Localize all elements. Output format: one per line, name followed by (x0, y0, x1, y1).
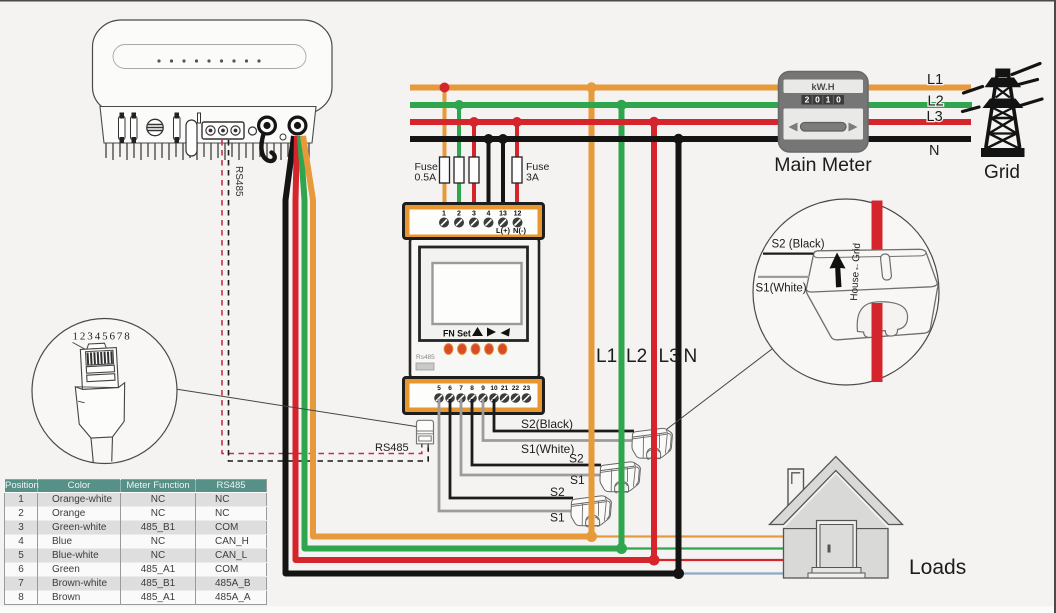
CT secondary wire S1 gray (terminal 9 to CT3) (483, 399, 637, 441)
svg-text:L3: L3 (659, 346, 680, 367)
CT zoom S2 line (763, 253, 814, 255)
CT zoom clamp slot (880, 254, 892, 281)
svg-text:Rs485: Rs485 (416, 354, 435, 361)
CT zoom arrow (830, 253, 846, 288)
CT secondary wire S1 gray (terminal 5 to CT1) (439, 399, 578, 511)
svg-text:12: 12 (514, 211, 522, 218)
svg-text:L2: L2 (928, 94, 944, 110)
wire feeder L1 lower segment through CT1 (589, 420, 595, 537)
inverter front pill with LEDs (113, 45, 306, 69)
svg-text:L1: L1 (927, 72, 943, 88)
CT clamp CT3 (top, on L3) (632, 428, 672, 459)
junction dot on L2 bus at drop 2 (454, 100, 464, 110)
main meter body (779, 72, 869, 153)
svg-text:3A: 3A (526, 172, 539, 184)
svg-text:13: 13 (499, 211, 507, 218)
svg-text:S2: S2 (569, 452, 584, 466)
svg-text:2: 2 (805, 95, 810, 105)
svg-text:0.5A: 0.5A (415, 172, 437, 184)
svg-text:RS485: RS485 (233, 166, 244, 197)
CT clamp CT1 (bottom, on L1) (571, 496, 611, 527)
svg-text:8: 8 (470, 385, 474, 392)
thin wire N to house (679, 572, 784, 574)
wire drop to meter terminal 12 N(-) via fuse (515, 122, 519, 213)
svg-text:S1: S1 (550, 511, 565, 525)
svg-text:N(-): N(-) (513, 226, 526, 235)
RJ45 latch tab (87, 343, 107, 349)
junction dot on L3 bus at fuse F4 drop (512, 117, 522, 127)
svg-text:7: 7 (459, 385, 463, 392)
RJ45 pins (88, 351, 112, 364)
svg-text:21: 21 (501, 385, 509, 392)
energy meter LED dots (444, 344, 507, 355)
svg-text:4: 4 (487, 211, 491, 218)
inverter vent pill (186, 120, 197, 156)
svg-text:1: 1 (826, 95, 831, 105)
svg-text:N: N (684, 346, 698, 367)
svg-text:FN Set: FN Set (443, 329, 471, 339)
fuse F1 0.5A (440, 157, 450, 183)
CT zoom circle (753, 199, 939, 385)
RJ45 zoom circle (32, 319, 177, 464)
inverter small circle port (280, 134, 286, 140)
wire feeder N lower segment (676, 420, 682, 574)
CT secondary wire S2 black (terminal 6 to CT1) (450, 399, 573, 498)
junction dot on N bus at drop 13 (498, 134, 508, 144)
svg-text:RS485: RS485 (375, 442, 409, 454)
wire L2 from inverter (green) (300, 136, 622, 549)
RJ45 boot (75, 383, 127, 439)
svg-text:5: 5 (437, 385, 441, 392)
house (Loads) (0, 0, 1, 1)
inverter small port (249, 127, 257, 135)
CT secondary wire S1 gray (terminal 7 to CT2) (461, 399, 606, 475)
RJ45 latch leader (72, 342, 85, 351)
svg-text:23: 23 (523, 385, 531, 392)
wire L3 from inverter (red) (296, 136, 655, 560)
CT zoom S1 line (758, 276, 810, 278)
svg-text:S2: S2 (550, 485, 565, 499)
inverter antenna stub (198, 113, 201, 123)
CT zoom leader line (667, 349, 772, 429)
energy meter Rs485 mark (416, 354, 435, 370)
svg-text:3: 3 (472, 211, 476, 218)
vertical feeder N (black) (676, 139, 682, 574)
wire feeder L2 lower segment through CT2 (619, 420, 625, 549)
CT zoom clamp body (806, 249, 938, 340)
wire drop L1 to meter terminal 1 (443, 88, 447, 214)
vertical feeder L3 (red) (651, 122, 657, 560)
wire drop L3 to meter terminal 3 (472, 122, 476, 213)
inverter DC switch connectors (119, 113, 181, 144)
junction dot L3 to loads (649, 555, 660, 566)
fuse F2 (454, 157, 464, 183)
svg-text:N: N (929, 143, 939, 159)
svg-text:1: 1 (442, 211, 446, 218)
junction dot on N bus at feeder N (673, 134, 683, 144)
inverter rotary knob (147, 119, 163, 135)
RJ45 slot 2 (87, 374, 115, 382)
junction dot on L1 bus at drop 1 (440, 83, 450, 93)
junction dot on L2 bus at feeder L2 (616, 100, 626, 110)
svg-text:L3: L3 (927, 109, 943, 125)
svg-text:L1: L1 (596, 346, 617, 367)
svg-text:10: 10 (490, 385, 498, 392)
top edge dark border (0, 0, 1056, 2)
inverter body (93, 20, 333, 143)
right edge dark border (1054, 0, 1056, 613)
energy meter body (410, 239, 539, 378)
vertical feeder L1 (orange) (589, 88, 595, 537)
wire drop L2 to meter terminal 2 (457, 105, 461, 213)
thin wire L2 to house (622, 547, 784, 549)
svg-text:S2 (Black): S2 (Black) (772, 239, 825, 251)
svg-text:12345678: 12345678 (73, 331, 132, 343)
svg-text:Grid: Grid (984, 162, 1020, 183)
wire N from inverter (black) (286, 136, 679, 574)
junction dot on L3 bus at feeder L3 (649, 117, 659, 127)
bottom white band (0, 607, 1056, 613)
wire drop N to meter terminal 4 (487, 139, 491, 213)
svg-text:S1(White): S1(White) (521, 442, 574, 456)
svg-text:S2(Black): S2(Black) (521, 417, 573, 431)
CT zoom red wire upper (872, 201, 883, 257)
svg-text:9: 9 (481, 385, 485, 392)
thin wire L3 to house (654, 559, 783, 561)
CT secondary wire S2 black (terminal 8 to CT2) (472, 399, 601, 465)
svg-text:2: 2 (457, 211, 461, 218)
RJ45 slot 1 (86, 365, 114, 373)
energy meter top terminal block (404, 204, 544, 239)
svg-text:S1(White): S1(White) (756, 283, 807, 295)
inverter COM terminal block (202, 122, 244, 139)
CT clamp CT2 (middle, on L2) (600, 462, 640, 493)
vertical feeder L2 (green) (619, 105, 625, 549)
svg-text:Loads: Loads (909, 556, 966, 579)
RJ45 leader line to RS485 plug (176, 389, 417, 427)
fuse F3 (469, 157, 479, 183)
wire feeder L3 lower segment through CT3 (651, 420, 657, 560)
junction dot L2 to loads (616, 543, 627, 554)
RJ45 cable (91, 437, 114, 463)
svg-text:0: 0 (815, 95, 820, 105)
RJ45 head (80, 348, 118, 390)
wire drop N to meter terminal 13 L(+) (501, 139, 505, 213)
svg-text:22: 22 (512, 385, 520, 392)
RS485 dashed wire pair from inverter to RS485 plug (222, 140, 428, 461)
CT zoom red wire lower (872, 303, 883, 382)
CT secondary wire S2 black (terminal 10 to CT3) (494, 399, 634, 431)
junction dot on L3 bus at drop 3 (469, 117, 479, 127)
bus wire N (black) (410, 136, 971, 142)
RS485 plug body (417, 420, 434, 447)
RJ45 plug (72, 340, 128, 463)
grid tower (963, 64, 1043, 158)
bus wire L1 (orange) (410, 85, 971, 91)
house (loads) (770, 457, 903, 579)
junction dot L1 to loads (586, 531, 597, 542)
bus wire L3 (red) (410, 119, 971, 125)
fuse F4 3A (512, 157, 522, 183)
svg-text:kW.H: kW.H (811, 82, 834, 93)
junction dot on L1 bus at feeder L1 (586, 82, 596, 92)
energy meter screen (420, 247, 528, 341)
inverter AC connector 1 (259, 117, 276, 134)
svg-text:S1: S1 (570, 473, 585, 487)
energy meter bottom terminal block (404, 378, 544, 414)
junction dot N to loads (673, 568, 684, 579)
wire L1 from inverter (orange) (303, 136, 592, 537)
svg-text:L2: L2 (626, 346, 647, 367)
svg-text:L(+): L(+) (496, 226, 510, 235)
svg-text:6: 6 (448, 385, 452, 392)
energy meter FN Set buttons (443, 327, 510, 339)
inverter AC cable curl (261, 134, 274, 161)
bus wire L2 (green) (410, 102, 972, 108)
svg-text:0: 0 (836, 95, 841, 105)
thin wire L1 to house (592, 535, 784, 537)
svg-text:Main Meter: Main Meter (774, 154, 872, 176)
inverter AC connector 2 (289, 117, 306, 134)
pin mapping table (4, 479, 267, 605)
junction dot on N bus at drop 4 (484, 134, 494, 144)
inverter heatsink fins (106, 143, 309, 160)
